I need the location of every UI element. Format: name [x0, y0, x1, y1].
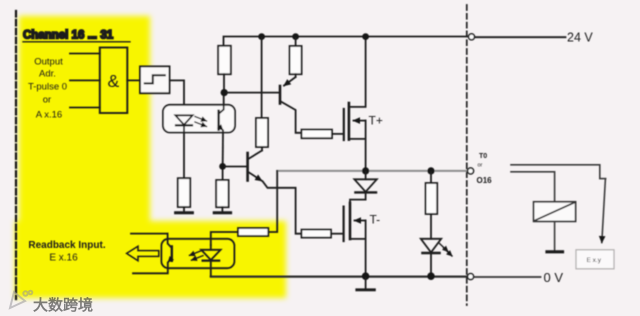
wire node B to Q2 base [225, 166, 246, 168]
svg-text:O16: O16 [477, 176, 493, 185]
wire rail to R9 [430, 172, 432, 183]
mosfet T+ [344, 38, 383, 169]
resistor R4 [178, 178, 190, 207]
svg-text:E x.16: E x.16 [49, 253, 78, 264]
label Readback Input [28, 240, 105, 264]
svg-text:T-: T- [370, 213, 381, 227]
node on output rail at D1 [362, 167, 369, 174]
wire R3 to Q2 collector [261, 147, 263, 151]
resistor R7 [302, 230, 332, 238]
svg-text:T-pulse 0: T-pulse 0 [28, 82, 67, 93]
node on 24V rail at T+ [362, 33, 369, 40]
label Channel 16 ... 31 [23, 30, 130, 42]
resistor R8 [302, 130, 333, 139]
D2 emission arrows [440, 244, 453, 257]
wire U3 emitter down to node [222, 131, 224, 165]
LED D2 [421, 239, 441, 275]
svg-text:T0: T0 [479, 153, 487, 160]
wire rail to R2 [295, 38, 297, 46]
resistor R1 [218, 46, 231, 74]
wire relay to ground [554, 221, 556, 250]
svg-text:24 V: 24 V [567, 31, 593, 45]
terminal O16 [468, 168, 474, 174]
wire 24V terminal to label [475, 36, 566, 38]
24V supply rail wire [224, 37, 468, 47]
svg-text:or: or [43, 95, 51, 106]
svg-text:Readback Input.: Readback Input. [28, 240, 105, 251]
readback direction arrow [127, 246, 159, 261]
mosfet T- [344, 203, 381, 275]
relay K1 [534, 202, 576, 222]
node A (junction dot) [221, 89, 228, 96]
resistor R5 [216, 180, 228, 207]
bottom 0V rail wire [211, 276, 467, 278]
wire to relay coil [511, 172, 555, 202]
wire AND output to schmitt [127, 79, 140, 81]
AND gate U1 [100, 48, 128, 114]
ground below R4 [176, 207, 193, 213]
label T0 or O16 [477, 153, 493, 185]
U4 phototransistor [131, 234, 172, 274]
svg-text:Output: Output [34, 57, 63, 68]
switch S1 [600, 179, 606, 243]
watermark logo [10, 291, 32, 308]
right boundary dashed line [466, 5, 468, 305]
U3 LED [175, 115, 192, 178]
optocoupler U3 box [163, 105, 235, 133]
svg-text:0 V: 0 V [544, 270, 564, 285]
wire rail to R3 (crosses base wire) [261, 38, 263, 118]
output rail wire (grey) to O16 [277, 170, 467, 172]
left boundary dashed line [15, 11, 17, 299]
node on 24V rail at R3 [258, 33, 265, 40]
wire AND input 3 [70, 107, 100, 109]
svg-text:Channel 16 ... 31: Channel 16 ... 31 [23, 30, 114, 42]
resistor R6 [238, 228, 268, 236]
wire R7 to T- gate [331, 233, 343, 235]
node on 0V rail at D2 [427, 272, 435, 280]
wire AND input 1 [70, 53, 100, 55]
input box E x.y [576, 250, 614, 269]
label input signals [28, 57, 67, 121]
U3 phototransistor [219, 94, 224, 130]
svg-text:Adr.: Adr. [39, 69, 56, 80]
node on 24V rail at R2 [292, 33, 299, 40]
highlight region (yellow) [15, 16, 286, 298]
wire R8 to T+ gate [332, 133, 343, 135]
wire node A to Q1 base [227, 92, 279, 94]
svg-text:大数跨境: 大数跨境 [33, 296, 93, 314]
wire output rail to R6 [268, 171, 277, 232]
svg-text:T+: T+ [369, 114, 383, 128]
svg-text:or: or [478, 163, 483, 169]
diode D1 [350, 172, 377, 203]
U4 light arrows [190, 251, 204, 260]
wire schmitt output to optocoupler LED [170, 80, 185, 115]
svg-text:&: & [108, 71, 120, 91]
U4 LED [201, 245, 220, 276]
U3 light arrows [195, 117, 207, 127]
terminal 24V [469, 34, 475, 40]
transistor Q2 (NPN) [248, 151, 262, 181]
resistor R2 [290, 46, 302, 74]
wire R9 to LED D2 [430, 214, 432, 239]
node on 0V rail at T- [362, 272, 370, 280]
terminal 0V [468, 274, 474, 280]
svg-text:A x.16: A x.16 [36, 110, 62, 121]
schmitt trigger U2 [140, 66, 170, 93]
ground below relay [547, 250, 563, 253]
wire node to R5 [222, 166, 224, 180]
node B (junction dot) [219, 163, 226, 170]
optocoupler U4 box [161, 239, 234, 268]
node on output rail at R9 [427, 167, 434, 174]
wire AND input 2 [70, 79, 100, 81]
ground below R5 [214, 207, 230, 213]
ground below 0V node [357, 278, 375, 290]
svg-text:E x.y: E x.y [587, 257, 602, 264]
wire Q2 emitter to R7 [263, 182, 302, 234]
transistor Q1 (PNP) [280, 74, 302, 133]
resistor R3 [256, 118, 268, 147]
wire 0V terminal to label [475, 276, 541, 278]
wire R1 to node A [223, 74, 225, 90]
resistor R9 [426, 183, 438, 214]
wire to switch contact [511, 165, 600, 178]
wire R6 to readback LED [211, 232, 238, 245]
